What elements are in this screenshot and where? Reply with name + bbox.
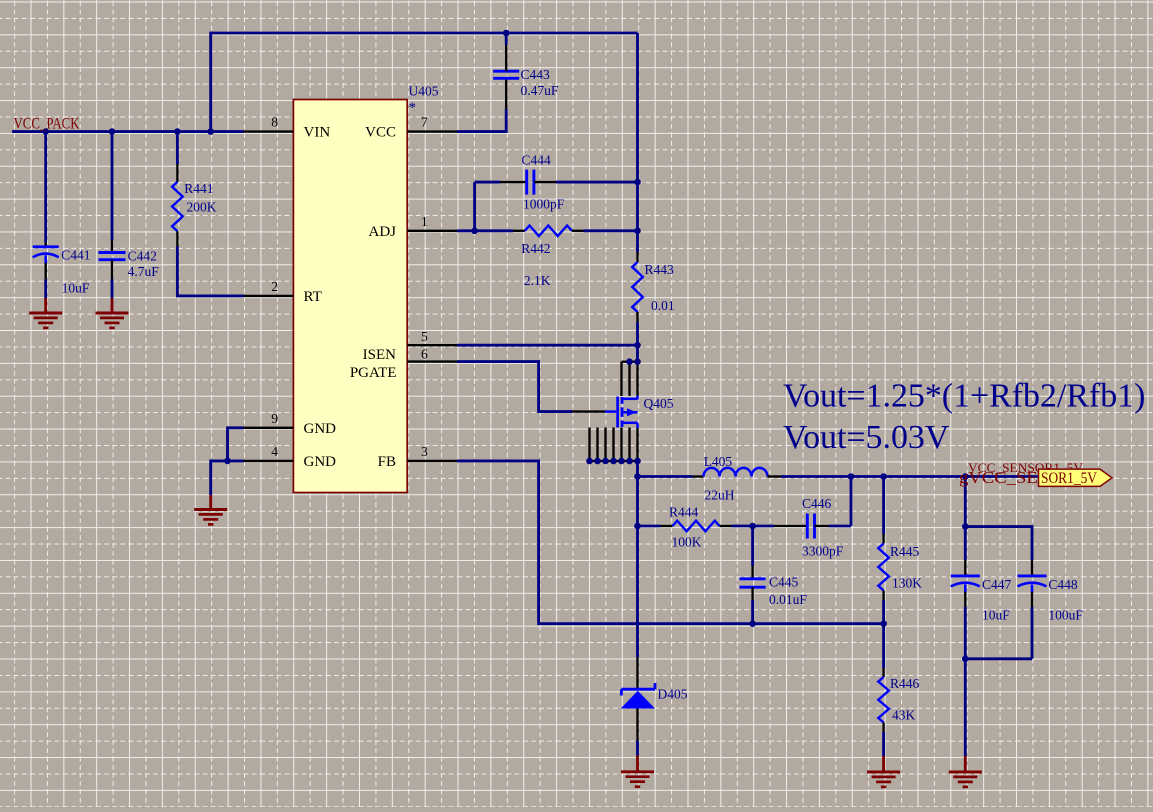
svg-text:C442: C442 bbox=[128, 249, 157, 264]
svg-text:9: 9 bbox=[271, 411, 278, 426]
svg-text:7: 7 bbox=[421, 115, 428, 130]
ground under C441 bbox=[44, 298, 47, 313]
pin 8 VIN stub bbox=[244, 130, 294, 132]
svg-text:L405: L405 bbox=[704, 454, 733, 469]
svg-text:22uH: 22uH bbox=[705, 488, 735, 503]
resistor R442 bbox=[513, 230, 525, 232]
svg-text:4.7uF: 4.7uF bbox=[128, 264, 160, 279]
ground under GND pins bbox=[209, 495, 212, 509]
svg-text:43K: 43K bbox=[892, 708, 916, 723]
node C443 junction on top rail bbox=[503, 30, 510, 37]
node L405 takeoff junction bbox=[634, 473, 641, 480]
node junction C447/C448 top bbox=[962, 523, 969, 530]
wire FB pin3 route bbox=[457, 461, 884, 624]
svg-text:C444: C444 bbox=[522, 153, 552, 168]
svg-text:0.01: 0.01 bbox=[651, 298, 675, 313]
wire PGATE pin6 route to gate bbox=[457, 362, 572, 412]
ground under C447/C448 bbox=[964, 756, 967, 772]
svg-text:8: 8 bbox=[271, 115, 278, 130]
svg-text:C445: C445 bbox=[769, 575, 799, 590]
svg-text:R446: R446 bbox=[890, 676, 920, 691]
svg-text:D405: D405 bbox=[658, 687, 688, 702]
wire R441 to RT pin bbox=[177, 246, 243, 296]
svg-text:130K: 130K bbox=[892, 576, 922, 591]
svg-text:6: 6 bbox=[421, 346, 428, 361]
svg-text:VCC: VCC bbox=[365, 125, 396, 141]
wire C446 riser to output rail bbox=[850, 477, 853, 527]
resistor R443 bbox=[636, 252, 638, 262]
svg-text:VIN: VIN bbox=[304, 125, 331, 141]
svg-text:RT: RT bbox=[304, 289, 322, 305]
transistor Q405 symbol bbox=[605, 410, 616, 413]
node junction C442 on VCC_PACK rail bbox=[109, 128, 116, 135]
wire bus below R443 bbox=[636, 322, 639, 362]
pin 4 GND stub bbox=[244, 460, 294, 462]
wire GND pin9 route bbox=[228, 428, 244, 461]
node junction C441 on VCC_PACK rail bbox=[42, 128, 49, 135]
wire ISEN pin5 to bus bbox=[457, 344, 638, 347]
transistor Q405 drain pins bbox=[620, 362, 622, 396]
node VCC_PACK junction at riser bbox=[207, 128, 214, 135]
svg-text:100K: 100K bbox=[672, 535, 702, 550]
wire C442 lower lead bbox=[111, 279, 114, 298]
wire D405 lower lead bbox=[636, 741, 639, 756]
wire C443 top lead to rail bbox=[505, 33, 508, 45]
svg-text:ADJ: ADJ bbox=[368, 224, 396, 240]
svg-text:2.1K: 2.1K bbox=[524, 273, 551, 288]
svg-text:C448: C448 bbox=[1048, 577, 1078, 592]
ground under D405 bbox=[636, 756, 639, 772]
svg-text:R443: R443 bbox=[645, 262, 675, 277]
wire C442 upper lead bbox=[111, 132, 114, 240]
wire C447 branch to ground bbox=[964, 659, 967, 756]
node junction R441 on VCC_PACK rail bbox=[174, 128, 181, 135]
wire C441 upper lead bbox=[44, 132, 47, 242]
svg-text:C441: C441 bbox=[61, 248, 90, 263]
wire R442 to bus bbox=[584, 229, 638, 232]
capacitor C445 bbox=[751, 526, 754, 566]
svg-text:GND: GND bbox=[304, 421, 337, 437]
wire R441 upper lead bbox=[176, 132, 179, 164]
transistor Q405 source pins comb bbox=[588, 428, 590, 462]
wire bottom link C447/C448 bbox=[965, 657, 1032, 660]
svg-text:R442: R442 bbox=[521, 241, 550, 256]
wire VCC_PACK horizontal rail bbox=[12, 130, 244, 133]
wire bus below Q405 to D405 bbox=[636, 461, 639, 657]
node R442 junction on bus bbox=[634, 228, 641, 235]
diode D405 (schottky) bbox=[636, 657, 638, 689]
svg-text:ISEN: ISEN bbox=[363, 347, 397, 363]
svg-text:VCC_PACK: VCC_PACK bbox=[14, 116, 80, 133]
pin 3 FB stub bbox=[407, 460, 457, 462]
svg-text:1: 1 bbox=[421, 214, 428, 229]
svg-text:2: 2 bbox=[271, 279, 278, 294]
ground under R446 bbox=[882, 756, 885, 772]
svg-text:U405: U405 bbox=[409, 84, 439, 99]
capacitor C444 bbox=[475, 181, 500, 184]
capacitor C441 (polarized) bbox=[45, 242, 47, 247]
capacitor C448 (polarized) bbox=[1031, 560, 1033, 576]
node ISEN junction on bus bbox=[634, 342, 641, 349]
resistor R441 bbox=[176, 164, 178, 182]
wire main bus vertical upper bbox=[636, 33, 639, 231]
svg-text:4: 4 bbox=[271, 444, 278, 459]
svg-text:R444: R444 bbox=[669, 505, 699, 520]
capacitor C443 bbox=[505, 78, 507, 109]
wire top link to C448 bbox=[965, 527, 1032, 560]
svg-text:Vout=1.25*(1+Rfb2/Rfb1): Vout=1.25*(1+Rfb2/Rfb1) bbox=[783, 378, 1145, 415]
pin 7 VCC stub bbox=[407, 130, 457, 132]
svg-text:10uF: 10uF bbox=[982, 608, 1010, 623]
wire C444 right lead to bus bbox=[556, 181, 638, 184]
capacitor C446 bbox=[753, 525, 774, 528]
node junction R445 on output rail bbox=[880, 473, 887, 480]
svg-text:C443: C443 bbox=[521, 67, 551, 82]
node junction C445 bottom on FB wire bbox=[749, 620, 756, 627]
svg-text:C447: C447 bbox=[982, 577, 1012, 592]
node junction C446 riser on output rail bbox=[848, 473, 855, 480]
pin 2 RT stub bbox=[244, 295, 294, 297]
svg-text:SOR1_5V: SOR1_5V bbox=[1041, 470, 1098, 487]
svg-text:10uF: 10uF bbox=[62, 281, 90, 296]
pin 9 GND stub bbox=[244, 427, 294, 429]
svg-text:FB: FB bbox=[378, 454, 396, 470]
svg-text:0.47uF: 0.47uF bbox=[521, 83, 559, 98]
wire GND pin4 route bbox=[211, 461, 244, 495]
wire VCC pin7 to C443 riser bbox=[457, 109, 506, 132]
pin 5 ISEN stub bbox=[407, 344, 457, 346]
svg-text:C446: C446 bbox=[802, 496, 832, 511]
pin 1 ADJ stub bbox=[407, 230, 457, 232]
resistor R446 bbox=[882, 624, 885, 668]
wire C441 lower lead bbox=[44, 279, 47, 298]
op-amp/regulator U405 body bbox=[293, 100, 407, 493]
svg-text:1000pF: 1000pF bbox=[523, 197, 565, 212]
node C444 junction on bus bbox=[634, 179, 641, 186]
wire C447 branch riser bbox=[964, 477, 967, 527]
wire ADJ pin to R442 bbox=[457, 229, 513, 232]
wire main bus between ADJ and ISEN with resistor R443 inline bbox=[636, 231, 639, 252]
wire output rail to port bbox=[781, 475, 1040, 478]
svg-text:R441: R441 bbox=[184, 181, 213, 196]
svg-text:*: * bbox=[409, 100, 417, 116]
ground under C442 bbox=[111, 298, 114, 313]
node GND junction bbox=[224, 458, 231, 465]
svg-text:Q405: Q405 bbox=[644, 396, 674, 411]
node junction FB with R445/R446 divider bbox=[880, 620, 887, 627]
port VCC_SENSOR1_5V tag bbox=[1039, 469, 1113, 486]
svg-text:GND: GND bbox=[304, 454, 337, 470]
svg-text:R445: R445 bbox=[890, 544, 920, 559]
wire top rail from VCC_PACK riser to main bus bbox=[211, 33, 638, 132]
svg-text:PGATE: PGATE bbox=[350, 365, 397, 381]
svg-text:5: 5 bbox=[421, 329, 428, 344]
capacitor C442 bbox=[111, 240, 113, 253]
svg-text:200K: 200K bbox=[187, 200, 217, 215]
svg-text:100uF: 100uF bbox=[1048, 608, 1083, 623]
node junction C447 branch on output rail bbox=[962, 473, 969, 480]
inductor L405 bbox=[638, 475, 693, 478]
node ADJ junction with C444 riser bbox=[471, 228, 478, 235]
svg-text:3: 3 bbox=[421, 444, 428, 459]
resistor R445 bbox=[882, 477, 885, 535]
pin 6 PGATE stub bbox=[407, 360, 457, 362]
node drain junction dots bbox=[626, 358, 633, 365]
resistor R444 bbox=[638, 525, 661, 528]
capacitor C447 (polarized) bbox=[964, 527, 967, 560]
node junction R444/C445/C446 bbox=[749, 523, 756, 530]
node source pin junction dots bbox=[586, 458, 593, 465]
svg-text:Vout=5.03V: Vout=5.03V bbox=[783, 419, 950, 456]
svg-text:3300pF: 3300pF bbox=[802, 544, 844, 559]
node R444 junction on bus bbox=[634, 523, 641, 530]
svg-text:0.01uF: 0.01uF bbox=[769, 592, 807, 607]
node junction C447/C448 bottom bbox=[962, 656, 969, 663]
wire ADJ feedback left riser bbox=[473, 182, 476, 231]
